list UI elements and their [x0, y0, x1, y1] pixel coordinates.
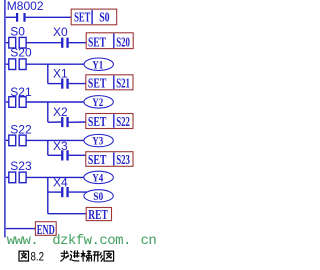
wire S23 to Y4 — [26, 176, 84, 178]
svg-text:dzkfw.: dzkfw. — [52, 233, 99, 249]
contact M8002 bar 2 — [23, 13, 25, 22]
STL contact S23 box 1 — [9, 172, 16, 183]
STL contact S22 box 1 — [9, 135, 16, 146]
coil Y4 — [84, 171, 113, 183]
svg-text:SET: SET — [88, 152, 107, 167]
svg-text:Y2: Y2 — [92, 95, 103, 109]
STL contact S21 box 1 — [9, 97, 16, 108]
wire S22 to Y3 — [26, 139, 84, 141]
svg-text:S0: S0 — [93, 189, 103, 203]
box END — [35, 222, 56, 236]
contact X0 bar 1 — [61, 38, 63, 48]
STL contact S0 stub — [6, 42, 9, 44]
svg-text:S23: S23 — [10, 159, 32, 173]
contact X2 bar 2 — [66, 117, 68, 127]
svg-text:S0: S0 — [99, 10, 110, 25]
contact X2 bar 1 — [61, 117, 63, 127]
STL contact S20 stub — [6, 63, 9, 65]
svg-text:S23: S23 — [116, 152, 130, 167]
STL contact S21 stub — [6, 101, 9, 103]
coil Y3 — [84, 134, 113, 146]
box SET S22 — [86, 114, 133, 129]
wire X1 to SET S21 — [69, 83, 86, 85]
branch wire C2 to D2 — [47, 102, 49, 122]
caption hanzi tu (figure) — [19, 251, 29, 261]
svg-text:M8002: M8002 — [7, 0, 44, 13]
wire X2 to SET S22 — [69, 121, 86, 123]
contact X1 bar 1 — [61, 79, 63, 89]
wire D3 left — [48, 154, 61, 156]
box SET S21 — [86, 75, 133, 90]
STL contact S20 box 2 — [19, 59, 26, 70]
box SET S20 — [86, 33, 133, 49]
wire X4 to S0 coil — [69, 191, 88, 193]
wire D1 left — [48, 83, 61, 85]
contact X0 bar 2 — [66, 38, 68, 48]
wire D2 left — [48, 121, 61, 123]
wire S20 to Y1 — [26, 63, 84, 65]
branch wire C4 to D4 and down to RET — [47, 177, 49, 213]
svg-text:S21: S21 — [116, 76, 130, 91]
svg-text:RET: RET — [88, 207, 108, 222]
wire X3 to SET S23 — [69, 154, 86, 156]
svg-text:S20: S20 — [116, 34, 130, 49]
svg-text:X3: X3 — [53, 139, 68, 153]
svg-text:SET: SET — [88, 34, 106, 49]
contact X4 bar 1 — [61, 187, 63, 197]
svg-text:S22: S22 — [10, 122, 32, 136]
wire M8002 to SET S0 — [26, 16, 72, 18]
caption hanzi ti (ladder) — [81, 250, 92, 261]
svg-text:cn: cn — [141, 233, 157, 249]
svg-text:S0: S0 — [10, 24, 25, 38]
svg-text:S22: S22 — [116, 114, 130, 129]
contact M8002 wire left — [6, 16, 16, 18]
contact X4 bar 2 — [66, 187, 68, 197]
wire X0 to SET S20 — [69, 42, 87, 44]
svg-text:SET: SET — [88, 76, 107, 91]
wire RET row — [48, 213, 86, 215]
svg-text:SET: SET — [88, 114, 107, 129]
svg-text:Y4: Y4 — [92, 170, 103, 184]
STL contact S23 box 2 — [19, 172, 26, 183]
wire S21 to Y2 — [26, 101, 84, 103]
STL contact S0 box 2 — [19, 37, 26, 48]
coil Y1 — [84, 58, 114, 71]
svg-text:com.: com. — [99, 233, 130, 249]
box RET — [86, 208, 111, 221]
svg-text:Y3: Y3 — [92, 134, 103, 148]
caption hanzi jin (advance) — [70, 250, 80, 261]
branch wire C3 to D3 — [47, 140, 49, 155]
contact X3 bar 2 — [66, 150, 68, 160]
caption hanzi bu (step) — [60, 250, 69, 261]
STL contact S22 stub — [6, 139, 9, 141]
svg-text:www.: www. — [7, 233, 38, 249]
coil Y2 — [84, 96, 113, 108]
STL contact S0 box 1 — [9, 37, 16, 48]
STL contact S20 box 1 — [9, 59, 16, 70]
svg-text:X4: X4 — [53, 176, 68, 190]
caption hanzi tu (figure) second — [104, 251, 114, 261]
wire D4 left — [48, 191, 61, 193]
contact X3 bar 1 — [61, 150, 63, 160]
svg-text:8.2: 8.2 — [31, 250, 45, 264]
STL contact S23 stub — [6, 176, 9, 178]
contact M8002 bar 1 — [16, 13, 18, 22]
caption hanzi xing (shape) — [93, 252, 103, 262]
wire S0 to X0 — [26, 42, 61, 44]
svg-text:X1: X1 — [53, 67, 68, 81]
svg-text:S20: S20 — [10, 45, 32, 59]
STL contact S21 box 2 — [19, 97, 26, 108]
branch wire C1 to D1 — [47, 64, 49, 83]
STL contact S22 box 2 — [19, 135, 26, 146]
coil S0 — [84, 190, 113, 202]
box SET S0 — [71, 9, 117, 25]
svg-text:Y1: Y1 — [92, 57, 103, 71]
left power rail — [4, 0, 6, 238]
svg-text:SET: SET — [74, 10, 90, 25]
svg-text:X2: X2 — [53, 105, 68, 119]
svg-text:X0: X0 — [53, 25, 68, 39]
box SET S23 — [86, 152, 133, 167]
wire END row — [6, 228, 36, 230]
contact X1 bar 2 — [66, 79, 68, 89]
